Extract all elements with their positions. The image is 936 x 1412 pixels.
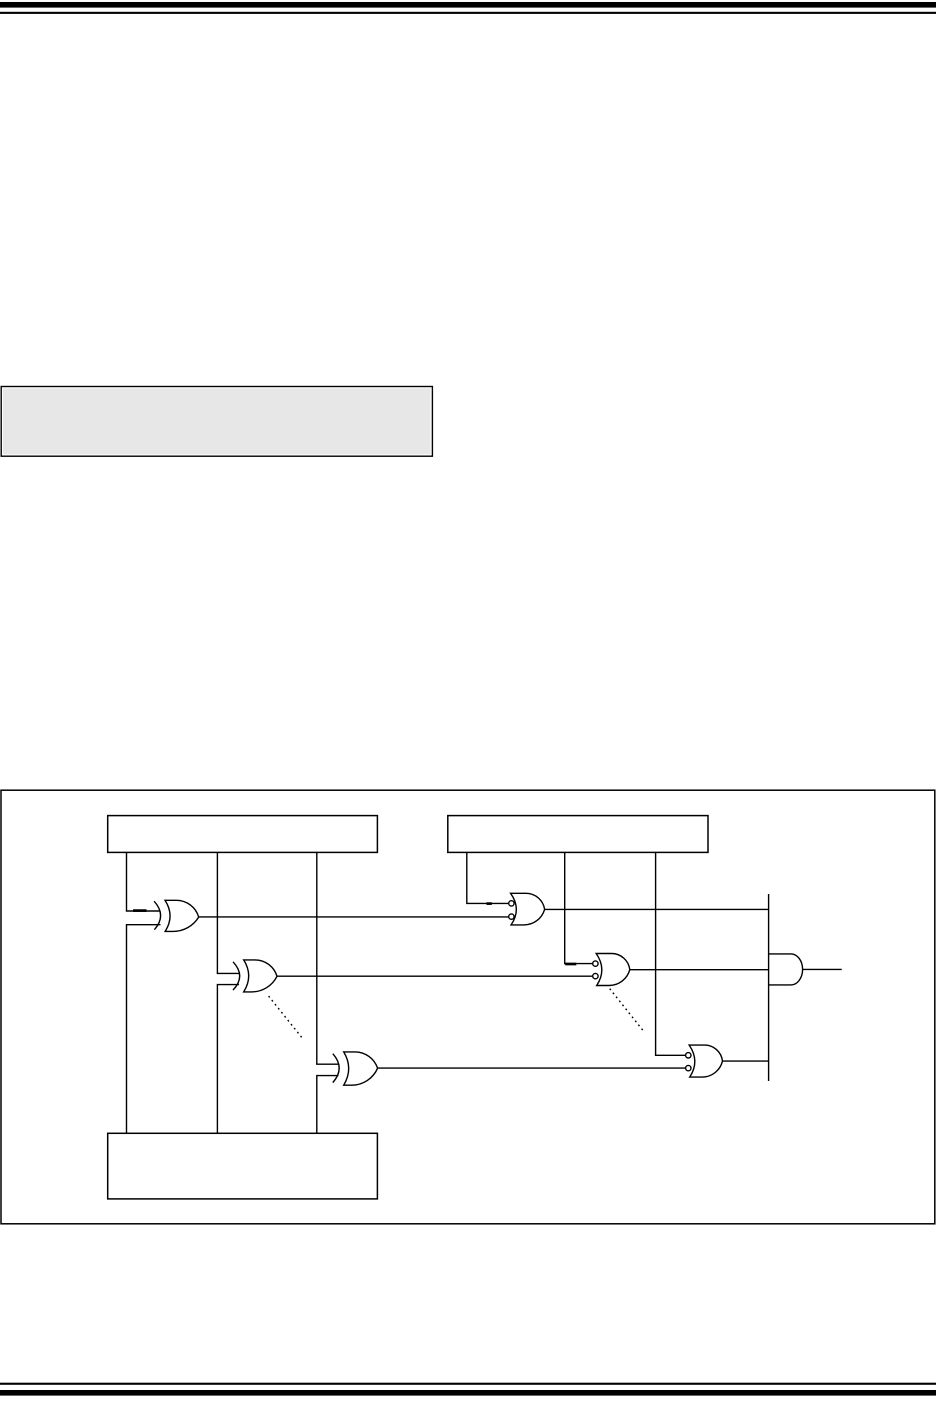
page header thin rule <box>0 12 936 14</box>
summing bus vertical <box>768 894 770 1081</box>
wire: box B bit0 down to G4 top input <box>467 852 509 903</box>
wire: box B bit1 down to G5 top input <box>565 852 593 963</box>
XOR gate X2 <box>233 960 277 992</box>
wire: box A bit2 down to X3 top input <box>317 852 339 1064</box>
wire: thick stub on G4 top input <box>487 902 492 905</box>
wire: G5 output to summing bus <box>630 969 769 971</box>
register box B (top right) <box>448 816 708 853</box>
XOR gate X3 <box>333 1052 378 1085</box>
shaded note box fill <box>3 388 430 454</box>
wire: AND gate output <box>803 968 842 970</box>
dashed leader from X2 <box>269 996 302 1037</box>
page footer thick rule <box>0 1390 936 1396</box>
wire: X2 output to G5 lower bubble <box>277 975 593 977</box>
wire: X1 output to G4 lower bubble <box>199 916 509 918</box>
wire: box A bit0 down to X1 top input <box>127 852 161 911</box>
page header thick rule <box>0 2 936 8</box>
wire: box B bit2 down to G6 top input <box>656 852 686 1055</box>
wire: box A bit1 down to X2 top input <box>217 852 239 973</box>
negated-input OR gate G6 <box>686 1045 723 1077</box>
dashed leader from G5 <box>610 989 643 1030</box>
register box A (top left) <box>108 816 378 853</box>
wire: X3 bottom input from box C via right vertical <box>317 1076 339 1134</box>
wire: G6 output to summing bus <box>723 1060 769 1062</box>
XOR gate X1 <box>154 900 199 931</box>
wire: X3 output to G6 lower bubble <box>377 1067 685 1069</box>
wire: X1 bottom input from box C via left vertical <box>127 925 161 1134</box>
shaded note box border <box>1 387 432 457</box>
wire: G4 output to summing bus <box>544 908 768 910</box>
wire: thick stub on X1 top input <box>133 909 147 912</box>
AND gate on summing bus <box>769 954 803 985</box>
register box C (bottom left) <box>108 1133 378 1199</box>
wire: thick stub on G5 top input <box>565 963 576 966</box>
page footer thin rule <box>0 1383 936 1385</box>
figure frame <box>1 790 935 1224</box>
negated-input OR gate G5 <box>593 954 630 986</box>
negated-input OR gate G4 <box>509 893 545 925</box>
wire: X2 bottom input from box C via middle vertical <box>217 985 239 1134</box>
